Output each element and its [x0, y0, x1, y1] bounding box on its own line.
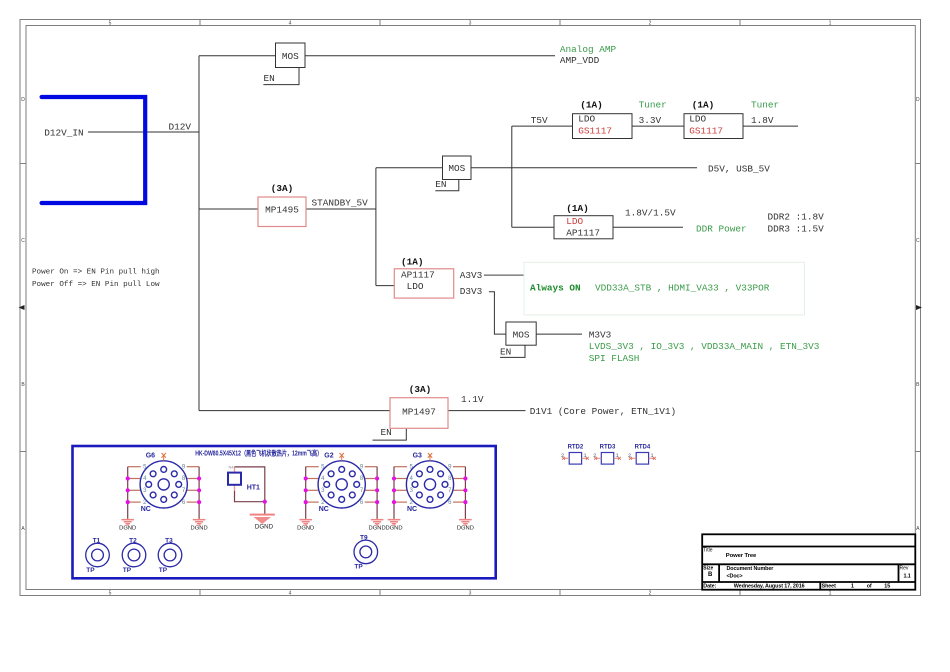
svg-text:HK-DW80.5X45X12（黑色飞机状散热片，12mm飞: HK-DW80.5X45X12（黑色飞机状散热片，12mm飞高） [195, 449, 322, 458]
svg-text:Power On => EN Pin pull high: Power On => EN Pin pull high [32, 269, 160, 277]
svg-text:<Doc>: <Doc> [727, 573, 743, 579]
svg-text:AMP_VDD: AMP_VDD [560, 55, 600, 66]
svg-text:STANDBY_5V: STANDBY_5V [312, 198, 369, 209]
svg-text:A: A [21, 526, 25, 532]
svg-text:LDO: LDO [578, 114, 595, 125]
svg-text:Tuner: Tuner [751, 99, 779, 110]
svg-text:(3A): (3A) [271, 183, 294, 194]
svg-text:D: D [21, 97, 25, 103]
svg-text:1.1V: 1.1V [461, 394, 484, 405]
svg-text:RTD2: RTD2 [568, 445, 584, 451]
svg-text:Rev: Rev [900, 566, 909, 572]
svg-text:D1V1 (Core Power, ETN_1V1): D1V1 (Core Power, ETN_1V1) [530, 406, 676, 417]
svg-text:1.8V: 1.8V [751, 115, 774, 126]
svg-text:B: B [708, 572, 713, 578]
svg-text:MOS: MOS [513, 329, 530, 340]
svg-text:G2: G2 [324, 452, 333, 459]
svg-text:Power Tree: Power Tree [726, 553, 757, 559]
svg-text:3: 3 [469, 20, 472, 26]
svg-text:Sheet: Sheet [822, 584, 836, 590]
svg-text:5: 5 [109, 590, 112, 596]
svg-text:1.8V/1.5V: 1.8V/1.5V [625, 208, 676, 219]
svg-text:B: B [916, 382, 920, 388]
svg-text:EN: EN [435, 179, 446, 190]
svg-text:A3V3: A3V3 [460, 270, 483, 281]
svg-text:1: 1 [829, 20, 832, 26]
svg-text:TP: TP [159, 567, 168, 574]
svg-text:(1A): (1A) [401, 256, 424, 267]
svg-text:1: 1 [829, 590, 832, 596]
svg-text:4: 4 [289, 590, 292, 596]
svg-text:EN: EN [500, 347, 511, 358]
svg-text:D12V: D12V [169, 122, 192, 133]
svg-text:DDR2 :1.8V: DDR2 :1.8V [768, 212, 825, 223]
svg-text:MP1497: MP1497 [402, 406, 436, 417]
svg-text:3: 3 [469, 590, 472, 596]
svg-text:LDO: LDO [689, 114, 706, 125]
svg-text:(1A): (1A) [566, 203, 589, 214]
svg-text:Power Off => EN Pin pull Low: Power Off => EN Pin pull Low [32, 281, 160, 289]
svg-text:VDD33A_STB , HDMI_VA33 , V33PO: VDD33A_STB , HDMI_VA33 , V33POR [595, 283, 770, 294]
svg-text:(1A): (1A) [580, 99, 603, 110]
svg-text:2: 2 [649, 590, 652, 596]
svg-text:T1: T1 [93, 538, 101, 545]
svg-text:3.3V: 3.3V [639, 115, 662, 126]
svg-text:of: of [867, 584, 872, 590]
svg-text:TP: TP [354, 564, 363, 571]
svg-text:D: D [916, 97, 920, 103]
svg-text:1: 1 [851, 584, 854, 590]
svg-text:T3: T3 [165, 538, 173, 545]
svg-text:C: C [21, 238, 25, 244]
svg-text:1.1: 1.1 [904, 573, 911, 579]
svg-text:T5V: T5V [531, 115, 548, 126]
svg-text:EN: EN [264, 73, 275, 84]
svg-text:GS1117: GS1117 [578, 126, 612, 137]
svg-text:T2: T2 [129, 538, 137, 545]
svg-text:5: 5 [109, 20, 112, 26]
svg-text:M3V3: M3V3 [589, 329, 612, 340]
svg-text:4: 4 [289, 20, 292, 26]
svg-text:DDR3 :1.5V: DDR3 :1.5V [768, 223, 825, 234]
svg-text:AP1117: AP1117 [566, 228, 600, 239]
svg-text:RTD3: RTD3 [600, 445, 616, 451]
svg-text:B: B [21, 382, 25, 388]
svg-text:SPI FLASH: SPI FLASH [589, 353, 640, 364]
svg-text:D5V, USB_5V: D5V, USB_5V [708, 163, 770, 174]
svg-text:Wednesday, August 17, 2016: Wednesday, August 17, 2016 [734, 584, 805, 590]
svg-text:LVDS_3V3 , IO_3V3 , VDD33A_MAI: LVDS_3V3 , IO_3V3 , VDD33A_MAIN , ETN_3V… [589, 341, 820, 352]
svg-text:RTD4: RTD4 [635, 445, 651, 451]
svg-text:15: 15 [884, 584, 890, 590]
svg-text:Date:: Date: [703, 584, 716, 590]
svg-text:D12V_IN: D12V_IN [44, 127, 83, 138]
svg-text:HT1: HT1 [247, 485, 260, 492]
svg-text:MP1495: MP1495 [265, 205, 299, 216]
svg-text:Analog AMP: Analog AMP [560, 44, 617, 55]
svg-text:D3V3: D3V3 [460, 286, 483, 297]
svg-text:N4: N4 [229, 465, 235, 470]
svg-text:GS1117: GS1117 [689, 126, 723, 137]
svg-text:TP: TP [86, 567, 95, 574]
svg-text:LDO: LDO [566, 216, 583, 227]
svg-text:(1A): (1A) [692, 99, 715, 110]
svg-text:Size: Size [703, 566, 713, 572]
svg-text:EN: EN [381, 427, 392, 438]
svg-text:MOS: MOS [448, 163, 465, 174]
svg-text:2: 2 [649, 20, 652, 26]
svg-text:Always ON: Always ON [530, 283, 581, 294]
svg-text:G3: G3 [413, 452, 422, 459]
svg-text:A: A [916, 526, 920, 532]
svg-text:TP: TP [123, 567, 132, 574]
svg-text:Title: Title [703, 548, 712, 554]
svg-text:Tuner: Tuner [639, 99, 667, 110]
svg-text:MOS: MOS [282, 51, 299, 62]
svg-text:G6: G6 [146, 452, 155, 459]
svg-text:AP1117: AP1117 [401, 269, 435, 280]
svg-text:(3A): (3A) [409, 384, 432, 395]
svg-text:T9: T9 [360, 535, 368, 542]
svg-text:Document Number: Document Number [727, 566, 775, 572]
svg-text:LDO: LDO [407, 281, 424, 292]
svg-text:DGND: DGND [255, 523, 274, 530]
svg-text:C: C [916, 238, 920, 244]
svg-text:DDR Power: DDR Power [696, 223, 747, 234]
